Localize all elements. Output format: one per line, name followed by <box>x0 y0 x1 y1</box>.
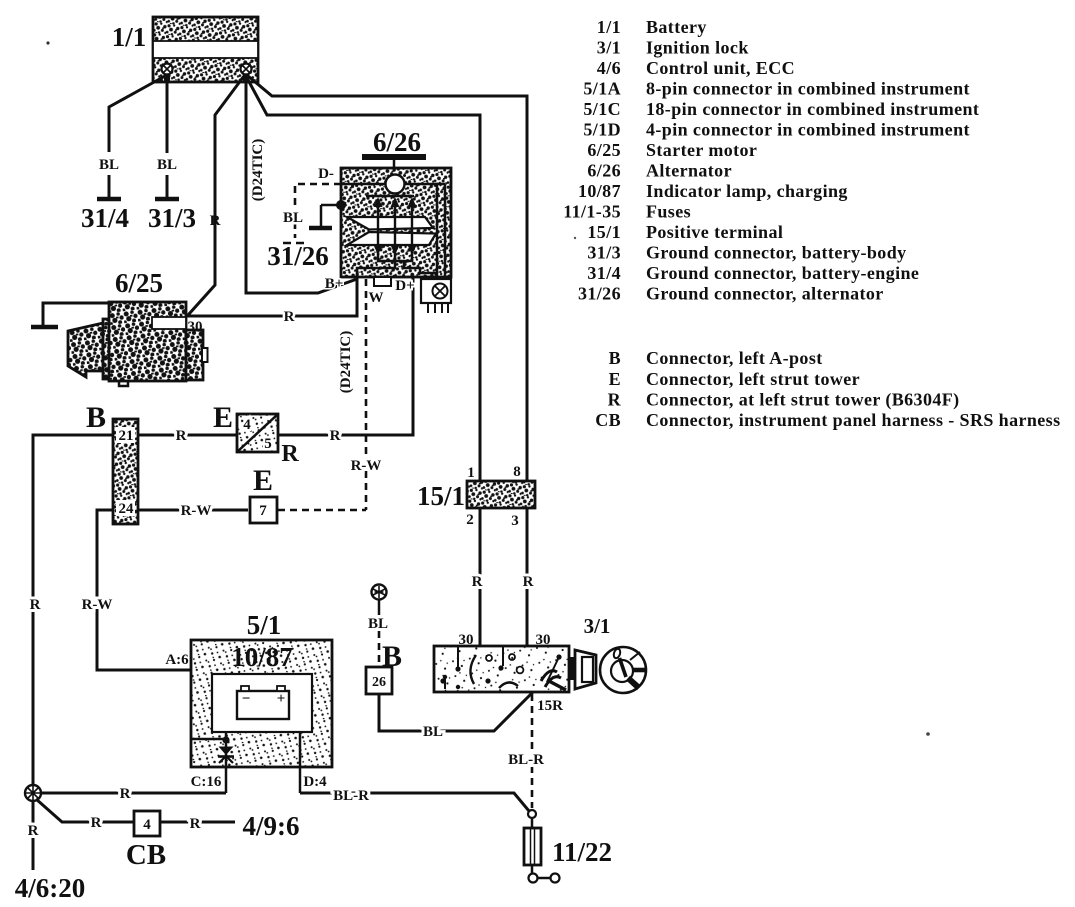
svg-text:Connector, instrument panel ha: Connector, instrument panel harness - SR… <box>646 410 1060 430</box>
svg-text:5: 5 <box>264 436 272 452</box>
svg-text:11/1-35: 11/1-35 <box>563 202 621 222</box>
svg-text:R: R <box>210 213 221 229</box>
svg-text:B: B <box>86 401 106 434</box>
svg-text:CB: CB <box>595 410 621 430</box>
svg-text:Indicator lamp, charging: Indicator lamp, charging <box>646 181 848 201</box>
svg-text:3/1: 3/1 <box>597 38 621 58</box>
svg-text:Connector, left strut tower: Connector, left strut tower <box>646 369 860 389</box>
svg-text:4/9:6: 4/9:6 <box>243 811 300 841</box>
svg-text:Connector, at left strut tower: Connector, at left strut tower (B6304F) <box>646 390 960 411</box>
svg-text:A:6: A:6 <box>165 652 189 668</box>
svg-text:R: R <box>190 816 201 832</box>
svg-text:31/3: 31/3 <box>587 243 621 263</box>
svg-text:BL-R: BL-R <box>333 788 369 804</box>
svg-text:26: 26 <box>372 675 386 690</box>
svg-text:(D24TIC): (D24TIC) <box>250 139 266 202</box>
svg-text:15/1: 15/1 <box>417 481 465 511</box>
svg-text:(D24TIC): (D24TIC) <box>338 331 354 394</box>
svg-text:D+: D+ <box>395 278 414 294</box>
svg-text:E: E <box>253 464 273 497</box>
svg-text:10/87: 10/87 <box>578 181 621 201</box>
svg-text:5/1A: 5/1A <box>583 79 621 99</box>
svg-text:R: R <box>284 309 295 325</box>
svg-text:1/1: 1/1 <box>112 22 147 52</box>
svg-text:R-W: R-W <box>181 503 212 519</box>
svg-text:R-W: R-W <box>351 458 382 474</box>
svg-text:31/26: 31/26 <box>578 284 621 304</box>
svg-text:24: 24 <box>119 501 135 517</box>
svg-text:R: R <box>91 815 102 831</box>
svg-text:5/1D: 5/1D <box>583 120 621 140</box>
svg-text:R: R <box>523 574 534 590</box>
svg-text:1: 1 <box>467 465 475 481</box>
svg-text:3/1: 3/1 <box>584 614 611 638</box>
svg-text:D:4: D:4 <box>303 774 327 790</box>
svg-text:Fuses: Fuses <box>646 202 691 222</box>
svg-text:B: B <box>609 348 621 368</box>
svg-text:Ground connector, battery-body: Ground connector, battery-body <box>646 243 907 263</box>
svg-text:1/1: 1/1 <box>597 17 621 37</box>
svg-text:Connector, left A-post: Connector, left A-post <box>646 348 823 368</box>
svg-text:5/1C: 5/1C <box>583 99 621 119</box>
svg-text:Alternator: Alternator <box>646 161 732 181</box>
svg-text:BL-R: BL-R <box>508 752 544 768</box>
svg-text:BL: BL <box>283 210 303 226</box>
svg-text:30: 30 <box>188 319 203 335</box>
svg-text:BL: BL <box>368 616 388 632</box>
svg-text:B+: B+ <box>325 276 344 292</box>
svg-text:BL: BL <box>157 157 177 173</box>
svg-text:8: 8 <box>513 464 521 480</box>
svg-text:11/22: 11/22 <box>552 837 612 867</box>
svg-text:D-: D- <box>318 166 334 182</box>
svg-text:+: + <box>277 691 286 707</box>
svg-text:R: R <box>472 574 483 590</box>
svg-text:C:16: C:16 <box>191 774 222 790</box>
svg-text:31/4: 31/4 <box>587 263 621 283</box>
svg-text:Ground connector, alternator: Ground connector, alternator <box>646 284 884 304</box>
svg-text:5/1: 5/1 <box>247 610 282 640</box>
svg-text:W: W <box>369 290 384 306</box>
svg-text:15/1: 15/1 <box>587 222 621 242</box>
svg-text:R: R <box>608 390 622 410</box>
svg-text:Battery: Battery <box>646 17 707 37</box>
svg-text:6/26: 6/26 <box>373 127 421 157</box>
svg-text:7: 7 <box>259 503 267 519</box>
svg-text:8-pin connector in combined in: 8-pin connector in combined instrument <box>646 79 970 99</box>
svg-text:10/87: 10/87 <box>231 642 293 672</box>
svg-text:E: E <box>213 401 233 434</box>
svg-text:Control unit, ECC: Control unit, ECC <box>646 58 795 78</box>
svg-text:18-pin connector in combined i: 18-pin connector in combined instrument <box>646 99 979 119</box>
svg-text:Ignition lock: Ignition lock <box>646 38 749 58</box>
svg-text:R: R <box>176 428 187 444</box>
svg-text:Starter motor: Starter motor <box>646 140 757 160</box>
svg-text:CB: CB <box>126 839 166 871</box>
svg-text:BL: BL <box>99 157 119 173</box>
svg-text:R: R <box>281 441 299 467</box>
svg-text:4/6: 4/6 <box>597 58 621 78</box>
svg-text:31/26: 31/26 <box>267 241 329 271</box>
svg-text:R: R <box>330 428 341 444</box>
svg-text:E: E <box>609 369 621 389</box>
svg-text:4: 4 <box>243 417 251 433</box>
svg-text:Positive terminal: Positive terminal <box>646 222 783 242</box>
svg-text:31/4: 31/4 <box>81 203 129 233</box>
svg-text:BL: BL <box>423 724 443 740</box>
svg-text:R: R <box>120 786 131 802</box>
svg-text:6/25: 6/25 <box>587 140 621 160</box>
svg-text:6/26: 6/26 <box>587 161 621 181</box>
svg-text:R: R <box>30 597 41 613</box>
svg-text:R: R <box>28 823 39 839</box>
svg-text:2: 2 <box>466 512 474 528</box>
svg-text:Ground connector, battery-engi: Ground connector, battery-engine <box>646 263 919 283</box>
svg-text:31/3: 31/3 <box>148 203 196 233</box>
svg-text:15R: 15R <box>537 698 563 714</box>
svg-text:−: − <box>242 691 251 707</box>
svg-text:6/25: 6/25 <box>115 268 163 298</box>
svg-text:4: 4 <box>143 817 151 833</box>
svg-text:3: 3 <box>511 513 519 529</box>
svg-text:4-pin connector in combined in: 4-pin connector in combined instrument <box>646 120 970 140</box>
svg-text:R-W: R-W <box>82 597 113 613</box>
svg-text:4/6:20: 4/6:20 <box>15 873 86 903</box>
svg-text:21: 21 <box>119 428 134 444</box>
